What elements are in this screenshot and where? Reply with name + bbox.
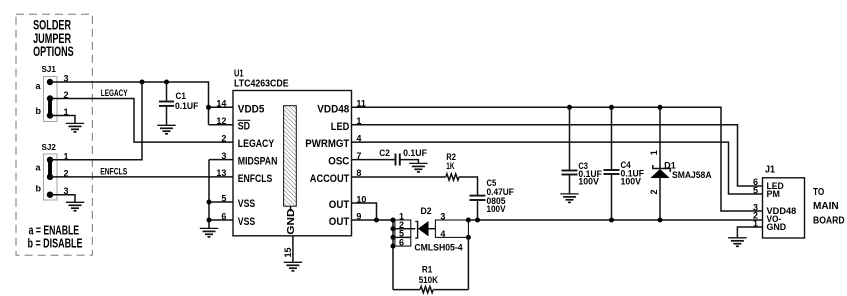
svg-text:ACCOUT: ACCOUT	[310, 173, 350, 185]
IC U1 box	[233, 91, 352, 236]
IC U1 left pin numbers	[216, 99, 226, 222]
IC U1 right pin numbers	[356, 99, 366, 222]
svg-text:6: 6	[399, 237, 404, 247]
capacitor C2	[379, 148, 427, 166]
ground C3	[560, 194, 578, 203]
IC U1 right pin names	[305, 103, 349, 228]
wire J1 pin1 to ground	[737, 227, 762, 238]
svg-text:SD: SD	[238, 120, 250, 132]
capacitor C3	[562, 107, 603, 194]
wire ENFCLS net	[50, 176, 233, 178]
svg-text:100V: 100V	[621, 177, 642, 187]
svg-text:1K: 1K	[446, 161, 455, 171]
wire SJ2 pin3 to ground	[50, 195, 75, 203]
wire LED to J1 pin6	[352, 125, 763, 186]
wire PWRMGT to J1 pin5	[352, 142, 763, 194]
svg-text:D2: D2	[421, 206, 432, 216]
svg-text:VSS: VSS	[238, 216, 255, 228]
capacitor C5	[470, 178, 515, 220]
wire VSS stub pin5	[209, 201, 233, 203]
node pin10/pin9 junction	[374, 218, 379, 223]
node VDD5/pin14 junction	[206, 105, 211, 110]
wire OUT net to J1 pin2	[468, 219, 762, 221]
svg-text:15: 15	[283, 247, 293, 257]
node D1 top	[658, 105, 663, 110]
svg-text:12: 12	[216, 116, 226, 126]
IC U1 pin 15 GND stub	[283, 236, 293, 262]
connector J1 box	[763, 178, 805, 238]
wire SJ1 pin1 to ground	[50, 116, 75, 124]
svg-text:LEGACY: LEGACY	[238, 138, 275, 150]
capacitor C4	[604, 107, 645, 220]
wire SJ1 pin3 to VDD5 rail	[50, 82, 209, 125]
diode D1 SMAJ58A	[649, 107, 712, 220]
ground SJ2	[66, 202, 84, 211]
ground C1	[157, 125, 175, 134]
svg-text:1: 1	[649, 150, 659, 155]
node VSS pin5 junction	[207, 200, 212, 205]
wire SJ2 pin1 up to VDD5 rail	[50, 82, 142, 160]
node C1 tap	[164, 80, 169, 85]
title SOLDER JUMPER OPTIONS	[33, 18, 74, 60]
svg-text:VDD48: VDD48	[317, 103, 349, 115]
svg-text:OSC: OSC	[328, 156, 349, 168]
wire OSC to C2	[352, 159, 396, 161]
wire VDD48 rail to J1 pin3	[352, 107, 763, 211]
IC U1 reference labels	[234, 68, 289, 90]
svg-text:TO: TO	[813, 187, 824, 198]
svg-text:ENFCLS: ENFCLS	[100, 166, 127, 176]
svg-text:PM: PM	[767, 189, 780, 199]
svg-text:C1: C1	[176, 91, 187, 101]
svg-text:PWRMGT: PWRMGT	[305, 138, 349, 150]
jumper SJ2	[36, 143, 69, 200]
svg-text:SJ2: SJ2	[42, 143, 57, 152]
svg-text:4: 4	[440, 229, 445, 239]
wire MIDSPAN/VSS vertical	[208, 160, 210, 229]
wire MIDSPAN stub pin3	[209, 159, 233, 161]
svg-text:13: 13	[216, 168, 226, 178]
svg-text:VDD5: VDD5	[238, 103, 265, 115]
wire ACCOUT to R2	[352, 176, 446, 178]
svg-text:3: 3	[440, 211, 445, 221]
wire LEGACY net	[50, 99, 233, 143]
solder jumper options dashed box	[16, 14, 92, 255]
connector J1 labels	[765, 164, 796, 232]
svg-text:OPTIONS: OPTIONS	[33, 44, 74, 59]
svg-text:LEGACY: LEGACY	[101, 88, 128, 98]
jumper SJ1	[36, 65, 69, 122]
svg-text:C2: C2	[379, 148, 390, 158]
svg-text:0.1UF: 0.1UF	[403, 148, 427, 158]
wire SD stub pin12	[209, 124, 234, 126]
diode D2 CMLSH05-4	[391, 206, 471, 290]
svg-text:GND: GND	[767, 222, 787, 232]
svg-text:2: 2	[221, 133, 226, 143]
node C5 bottom	[475, 218, 480, 223]
svg-text:5: 5	[753, 185, 758, 195]
svg-text:SJ1: SJ1	[42, 65, 57, 74]
svg-text:OUT: OUT	[329, 199, 350, 211]
resistor R1	[393, 265, 468, 293]
node VSS pin6 junction	[207, 218, 212, 223]
svg-text:a = ENABLE: a = ENABLE	[29, 223, 80, 237]
ground C2	[409, 163, 427, 172]
node C4 bottom	[609, 218, 614, 223]
svg-text:100V: 100V	[578, 177, 599, 187]
svg-text:VSS: VSS	[238, 198, 255, 210]
svg-text:SMAJ58A: SMAJ58A	[672, 170, 712, 180]
svg-text:14: 14	[216, 99, 226, 109]
svg-text:100V: 100V	[487, 204, 506, 214]
text TO MAIN BOARD	[813, 187, 845, 227]
resistor R2	[446, 152, 459, 180]
ground pin15	[284, 262, 302, 271]
svg-text:ENFCLS: ENFCLS	[238, 173, 272, 185]
svg-text:0.1UF: 0.1UF	[175, 101, 199, 111]
wire OUT pin9 to D2	[352, 219, 395, 221]
ground VSS	[200, 228, 218, 237]
svg-text:2: 2	[649, 189, 659, 194]
svg-text:BOARD: BOARD	[813, 216, 845, 227]
wire D2 pin4 down to R1	[467, 237, 469, 289]
ground SJ1	[66, 123, 84, 131]
IC U1 exposed pad	[284, 106, 297, 235]
svg-text:R1: R1	[422, 265, 432, 275]
svg-text:b: b	[36, 106, 42, 116]
svg-text:OUT: OUT	[329, 216, 350, 228]
node D1 bottom	[658, 218, 663, 223]
wire OUT pin10 stub	[352, 203, 377, 220]
node C4 top	[609, 105, 614, 110]
node SJ2 feed tap	[140, 80, 145, 85]
node C3 top	[567, 105, 572, 110]
wire VSS stub pin6	[209, 219, 233, 221]
svg-text:GND: GND	[285, 208, 297, 234]
ground J1	[728, 238, 746, 247]
svg-text:b = DISABLE: b = DISABLE	[28, 237, 83, 251]
wire VDD5 stub pin14	[209, 106, 234, 108]
svg-text:J1: J1	[765, 164, 775, 176]
svg-text:b: b	[36, 184, 42, 194]
capacitor C1	[159, 82, 199, 125]
svg-text:LED: LED	[331, 121, 350, 133]
svg-text:MIDSPAN: MIDSPAN	[238, 156, 278, 168]
svg-text:CMLSH05-4: CMLSH05-4	[414, 242, 462, 252]
connector J1 pin numbers	[753, 177, 758, 228]
IC U1 left pin names	[238, 103, 278, 228]
wire R2 to C5	[459, 177, 478, 195]
svg-text:510K: 510K	[419, 275, 439, 285]
svg-text:LTC4263CDE: LTC4263CDE	[234, 77, 289, 89]
svg-text:MAIN: MAIN	[813, 201, 839, 212]
